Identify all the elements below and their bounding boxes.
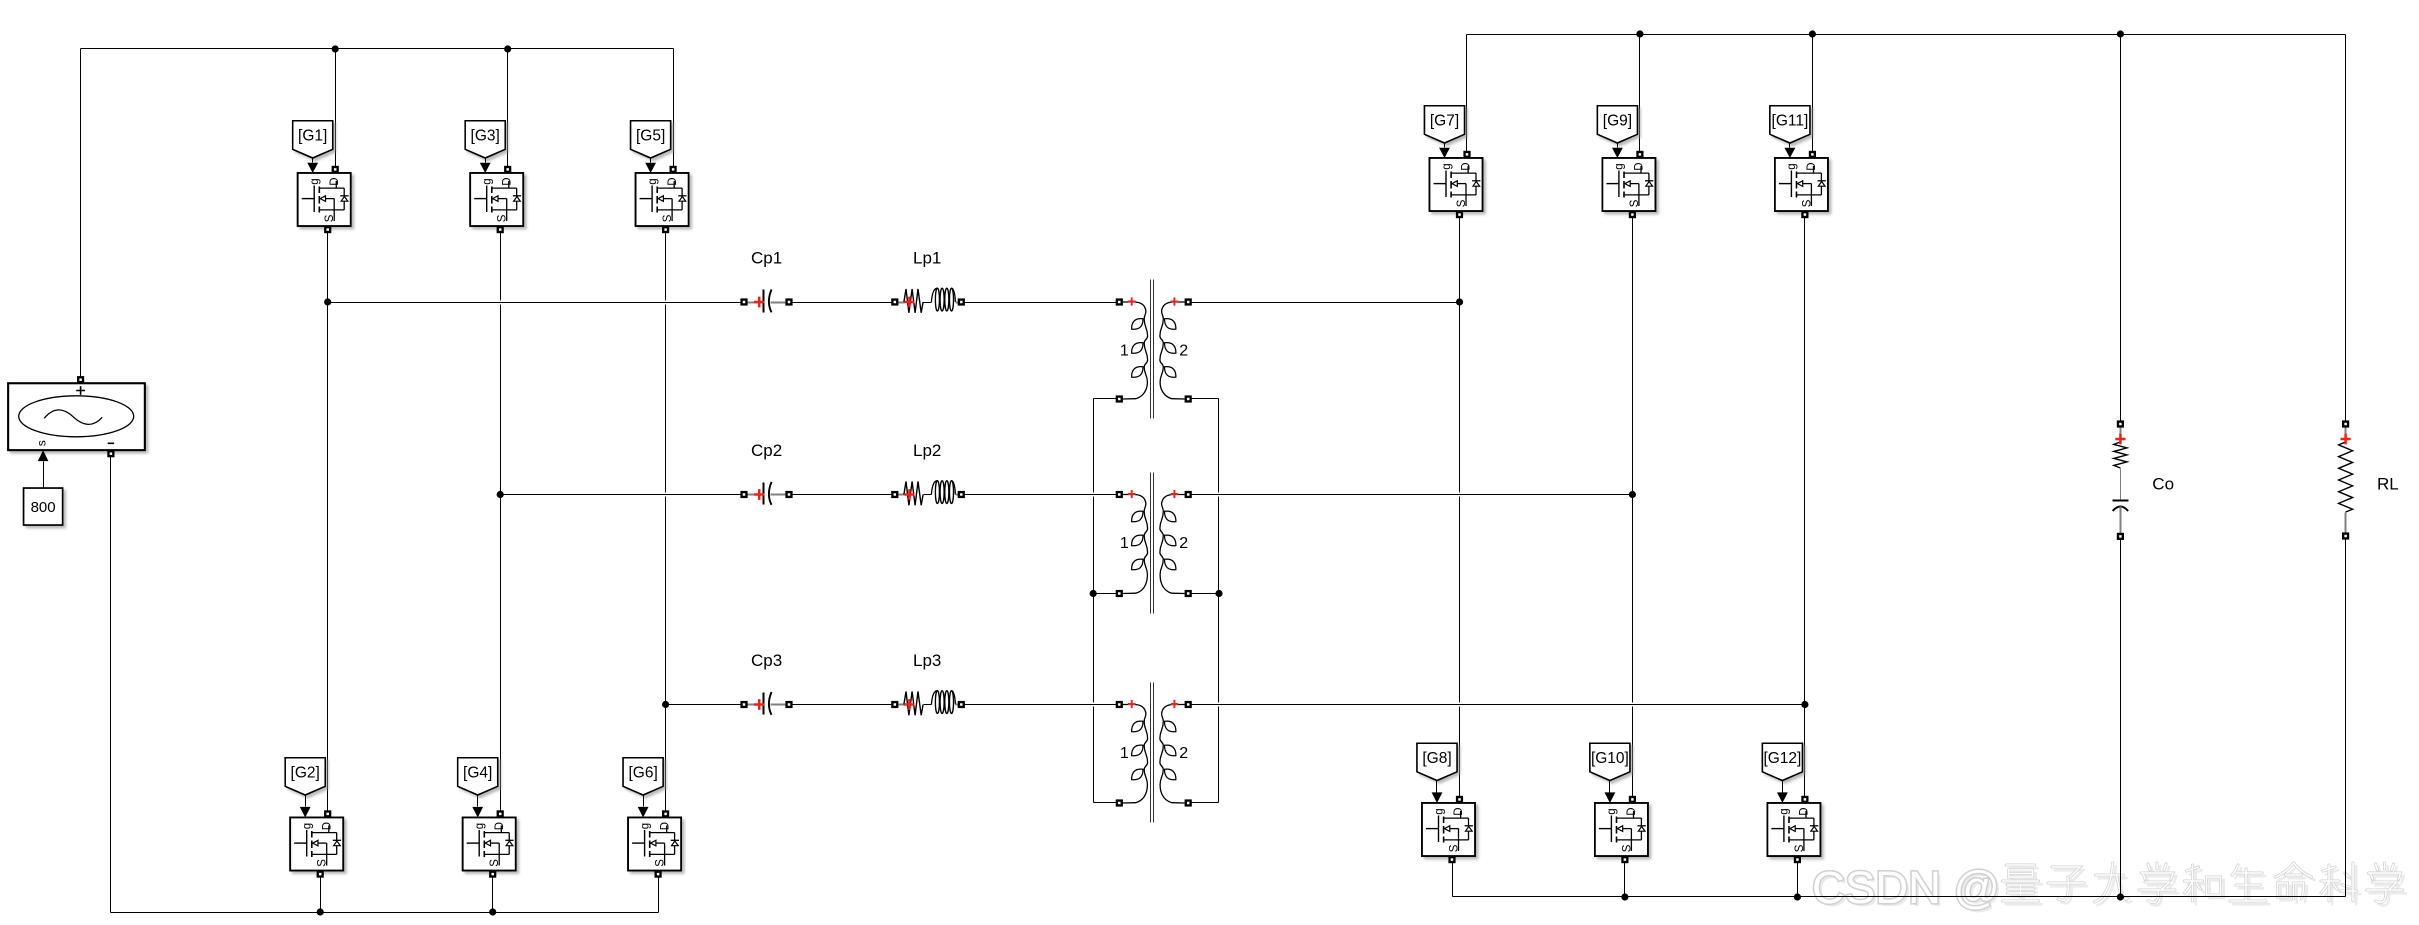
svg-text:[G4]: [G4] — [463, 765, 492, 782]
svg-text:[G9]: [G9] — [1603, 113, 1632, 130]
svg-text:1: 1 — [1120, 745, 1129, 762]
svg-text:[G5]: [G5] — [636, 128, 665, 145]
svg-text:Cp2: Cp2 — [751, 441, 782, 460]
svg-text:D: D — [329, 177, 341, 185]
svg-text:D: D — [321, 822, 333, 830]
svg-text:g: g — [639, 823, 651, 829]
svg-text:[G10]: [G10] — [1591, 750, 1629, 767]
svg-text:D: D — [1453, 807, 1465, 815]
svg-text:g: g — [302, 823, 314, 829]
svg-text:D: D — [1461, 162, 1473, 170]
svg-text:Cp3: Cp3 — [751, 651, 782, 670]
svg-text:2: 2 — [1179, 535, 1188, 552]
svg-text:Lp2: Lp2 — [913, 441, 941, 460]
svg-text:D: D — [1634, 162, 1646, 170]
svg-text:800: 800 — [31, 499, 56, 516]
svg-text:[G2]: [G2] — [291, 765, 320, 782]
svg-text:D: D — [1626, 807, 1638, 815]
svg-text:Cp1: Cp1 — [751, 248, 782, 267]
svg-text:g: g — [1614, 163, 1626, 169]
svg-text:D: D — [667, 177, 679, 185]
svg-text:2: 2 — [1179, 745, 1188, 762]
svg-text:g: g — [647, 178, 659, 184]
svg-text:[G8]: [G8] — [1422, 750, 1451, 767]
svg-text:1: 1 — [1120, 343, 1129, 360]
svg-text:g: g — [482, 178, 494, 184]
svg-text:Lp1: Lp1 — [913, 248, 941, 267]
svg-text:[G11]: [G11] — [1772, 113, 1809, 130]
svg-text:g: g — [309, 178, 321, 184]
svg-text:[G1]: [G1] — [298, 128, 327, 145]
svg-text:D: D — [494, 822, 506, 830]
svg-text:[G12]: [G12] — [1763, 750, 1801, 767]
svg-text:g: g — [1441, 163, 1453, 169]
svg-text:[G6]: [G6] — [628, 765, 657, 782]
svg-text:D: D — [501, 177, 513, 185]
svg-text:RL: RL — [2377, 475, 2399, 494]
svg-text:[G7]: [G7] — [1430, 113, 1459, 130]
svg-text:Lp3: Lp3 — [913, 651, 941, 670]
svg-text:D: D — [659, 822, 671, 830]
svg-text:s: s — [35, 440, 49, 446]
svg-text:g: g — [1606, 808, 1618, 814]
svg-text:g: g — [1779, 808, 1791, 814]
svg-text:Co: Co — [2152, 475, 2174, 494]
svg-text:g: g — [1433, 808, 1445, 814]
svg-text:CSDN @: CSDN @ — [1812, 862, 2000, 913]
svg-text:D: D — [1799, 807, 1811, 815]
svg-text:2: 2 — [1179, 343, 1188, 360]
svg-text:g: g — [1786, 163, 1798, 169]
svg-text:D: D — [1806, 162, 1818, 170]
svg-text:g: g — [474, 823, 486, 829]
svg-text:[G3]: [G3] — [471, 128, 500, 145]
svg-text:1: 1 — [1120, 535, 1129, 552]
